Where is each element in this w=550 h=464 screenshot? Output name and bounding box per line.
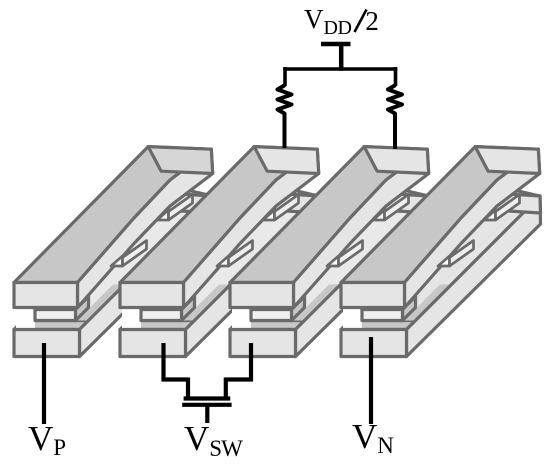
resonator 3 anchor block top face	[251, 297, 305, 310]
wire to source	[186, 378, 190, 398]
wire right drop	[394, 67, 398, 86]
wire to drain	[224, 378, 228, 398]
resonator 4 rail top face front strip (shadow)	[341, 321, 416, 330]
resonator 3 anchor block front face	[251, 310, 292, 321]
resonator 1 rail top face (slot band)	[23, 181, 213, 321]
resonator 1 rail front face	[14, 330, 80, 357]
resonator 4 beam side face	[405, 149, 540, 307]
wire from resonator 2 rail	[161, 343, 165, 382]
resonator 4 anchor block top face	[362, 297, 416, 310]
wire VP	[42, 343, 46, 424]
resonator 1 rail far end cap	[148, 192, 214, 213]
resonator 2 far coupler tab window	[275, 195, 299, 221]
resonator 2 near gap triangle	[217, 256, 229, 266]
resonator 3 beam far end cap	[364, 147, 429, 174]
resonator 4 rail top face (slot band)	[350, 181, 540, 321]
resonator 1 rail side face	[80, 196, 214, 357]
resonator 1 rail top face shadow extension	[77, 285, 125, 321]
resonator 4 rail top face shadow extension	[404, 285, 452, 321]
resonator 3 beam side face	[294, 149, 429, 307]
label VSW	[184, 419, 242, 462]
transistor M1 channel	[184, 396, 231, 400]
resonator 1 beam far end cap	[148, 147, 213, 174]
resonator 1 near gap triangle	[111, 256, 123, 266]
resonator 3 rail front face	[230, 330, 296, 357]
resonator 2 beam far end cap	[254, 147, 319, 174]
resonator 4 beam front face	[341, 283, 405, 308]
resonator 2 anchor block front face	[141, 310, 182, 321]
resonator 2 anchor block side face	[182, 297, 195, 321]
resonator 4 beam top face	[341, 147, 538, 283]
resonator 3 near gap triangle	[327, 256, 339, 266]
label slash of VDD/2	[355, 10, 367, 33]
label VP	[28, 419, 66, 461]
label VDD/2	[304, 4, 379, 40]
resonator 2 beam side face	[184, 149, 319, 307]
resonator 4 far coupler tab window	[496, 195, 520, 221]
resonator 4 anchor block side face	[403, 297, 416, 321]
resonator 2 rail top face (slot band)	[129, 181, 319, 321]
resonator 1 beam front face	[14, 283, 78, 308]
resonator 2 anchor block top face	[141, 297, 195, 310]
resonator 1 anchor block front face	[35, 310, 76, 321]
resonator 4 far gap triangle	[484, 210, 496, 220]
resonator 4 rail far end cap	[475, 192, 541, 213]
wire VN	[369, 337, 373, 424]
resonator 3 rail top face (slot band)	[239, 181, 429, 321]
resonator 4 rail front face	[341, 330, 407, 357]
resonator 2 rail top face front strip (shadow)	[120, 321, 195, 330]
resonator 2 rail side face	[186, 196, 320, 357]
resonator 3 rail top face shadow extension	[293, 285, 341, 321]
resonator 2 rail far end cap	[254, 192, 320, 213]
resonator 1 anchor block side face	[76, 297, 89, 321]
resonator 3 near coupler tab window	[339, 241, 363, 267]
resonator 3 beam top face	[230, 147, 427, 283]
resistor R1 (left bias)	[278, 85, 292, 148]
resonator 4 near coupler tab window	[450, 241, 474, 267]
resonator 3 far gap triangle	[373, 210, 385, 220]
resonator 2 near coupler tab window	[229, 241, 253, 267]
resonator 3 far coupler tab window	[385, 195, 409, 221]
resonator 2 rail top face shadow extension	[183, 285, 231, 321]
resonator 4 beam far end cap	[475, 147, 540, 174]
resonator 2 rail front face	[120, 330, 186, 357]
resonator 1 far gap triangle	[157, 210, 169, 220]
label VN	[352, 417, 394, 459]
resonator 4 anchor block front face	[362, 310, 403, 321]
resonator 2 front air gap	[122, 307, 141, 329]
resonator 4 rail side face	[407, 196, 541, 357]
wire bend left	[162, 377, 189, 381]
VDD supply terminal bar	[321, 42, 351, 47]
resonator 3 anchor block side face	[292, 297, 305, 321]
resonator 4 near gap triangle	[438, 256, 450, 266]
wire top horizontal	[283, 67, 397, 71]
resonator 1 beam top face	[14, 147, 211, 283]
resonator 2 beam front face	[120, 283, 184, 308]
transistor M1 gate	[182, 403, 231, 407]
resonator 2 far gap triangle	[263, 210, 275, 220]
resonator 1 anchor block top face	[35, 297, 89, 310]
resistor R2 (right bias)	[388, 85, 402, 149]
resonator 3 rail far end cap	[364, 192, 430, 213]
resonator 1 near coupler tab window	[123, 241, 147, 267]
wire left drop	[283, 67, 287, 86]
resonator 1 front air gap	[16, 307, 35, 329]
resonator 3 beam front face	[230, 283, 294, 308]
resonator 4 front air gap	[343, 307, 362, 329]
resonator 2 beam top face	[120, 147, 317, 283]
resonator 1 far coupler tab window	[169, 195, 193, 221]
resonator 3 rail top face front strip (shadow)	[230, 321, 305, 330]
resonator 1 beam side face	[78, 149, 213, 307]
resonator 1 rail top face front strip (shadow)	[14, 321, 89, 330]
wire from resonator 3 rail	[249, 343, 253, 382]
wire gate stem	[205, 405, 209, 423]
wire bend right	[226, 377, 253, 381]
resonator 3 rail side face	[296, 196, 430, 357]
wire VDD stem	[339, 42, 344, 71]
resonator 3 front air gap	[232, 307, 251, 329]
